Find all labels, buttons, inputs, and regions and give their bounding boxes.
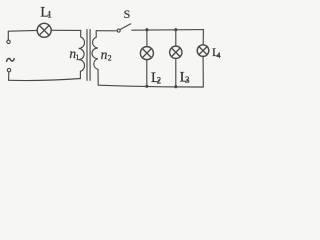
svg-text:S: S [124, 7, 131, 21]
svg-text:4: 4 [216, 50, 221, 60]
svg-text:1: 1 [75, 52, 79, 62]
wire: L4 lower drop [202, 56, 204, 87]
svg-text:2: 2 [108, 54, 112, 63]
terminal (bottom left input) [7, 68, 10, 71]
svg-text:3: 3 [185, 75, 190, 85]
terminal (top left input) [7, 40, 10, 43]
svg-text:1: 1 [47, 11, 52, 21]
wire: secondary bottom rail [98, 85, 203, 87]
wire: top rail from switch to right corner [132, 29, 204, 32]
junction dot bottom rail at L3 [174, 85, 177, 88]
lamp L2 [140, 47, 153, 60]
switch S pivot terminal [117, 29, 120, 32]
junction dot top rail at L2 [145, 28, 148, 31]
wire: top wire left segment [8, 29, 37, 32]
svg-text:n: n [101, 47, 108, 62]
wire: top-left vertical lead [7, 31, 9, 40]
transformer core [87, 30, 90, 81]
junction dot bottom rail at L2 [145, 85, 148, 88]
wire: bottom-left vertical lead [8, 72, 10, 80]
transformer secondary coil n2 [92, 31, 98, 85]
junction dot top rail at L3 [174, 28, 177, 31]
wire: primary bottom wire [9, 79, 81, 81]
lamp L1 [37, 23, 51, 37]
lamp L4 [197, 45, 209, 57]
wire: secondary top to switch [96, 30, 117, 32]
wire: top wire right segment [51, 29, 81, 31]
transformer primary coil n1 [79, 30, 85, 78]
wire: L3 lower drop [175, 58, 177, 86]
wire: L3 upper drop [175, 30, 177, 47]
AC source ~ [7, 58, 15, 61]
wire: L4 upper drop [202, 30, 204, 45]
svg-text:2: 2 [157, 75, 162, 85]
wire: L2 upper drop [146, 30, 148, 47]
switch blade [120, 24, 131, 30]
lamp L3 [170, 46, 182, 58]
wire: L2 lower drop [146, 60, 148, 87]
